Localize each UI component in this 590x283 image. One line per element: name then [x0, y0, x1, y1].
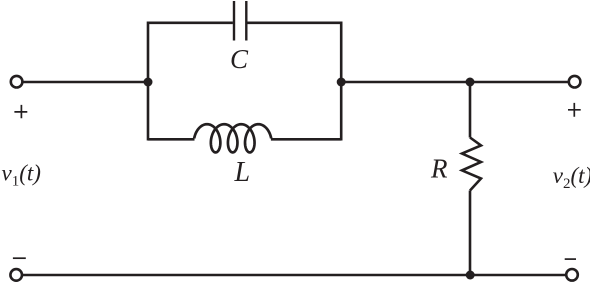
svg-text:v1(t): v1(t)	[2, 161, 41, 190]
minus sign bottom-right	[565, 258, 576, 260]
junction node B	[337, 78, 346, 87]
bottom wire	[23, 274, 567, 277]
plus sign top-right	[568, 103, 581, 117]
terminal top-right	[569, 76, 581, 88]
wire top-left to node A	[23, 81, 148, 84]
wire cap branch right horizontal	[247, 23, 341, 141]
wire inductor branch right	[271, 138, 341, 141]
junction node D bottom of resistor	[466, 271, 475, 280]
svg-text:L: L	[234, 157, 251, 188]
capacitor C left plate	[233, 1, 235, 41]
wire resistor top	[469, 82, 472, 138]
resistor R zigzag	[462, 138, 481, 191]
inductor L coil	[194, 124, 271, 152]
capacitor C right plate	[245, 1, 247, 41]
terminal bottom-left	[10, 269, 22, 281]
terminal top-left	[11, 76, 23, 88]
wire node B to right terminal	[341, 81, 569, 84]
wire cap branch left vertical	[148, 23, 233, 141]
plus sign top-left	[14, 105, 27, 118]
svg-text:v2(t): v2(t)	[553, 163, 590, 192]
terminal bottom-right	[566, 269, 578, 281]
wire inductor branch left	[148, 138, 195, 141]
minus sign bottom-left	[13, 257, 26, 259]
wire resistor bottom	[469, 191, 472, 276]
junction node A	[144, 78, 153, 87]
svg-text:C: C	[230, 44, 249, 74]
svg-text:R: R	[430, 154, 448, 184]
junction node C top of resistor	[466, 78, 475, 87]
